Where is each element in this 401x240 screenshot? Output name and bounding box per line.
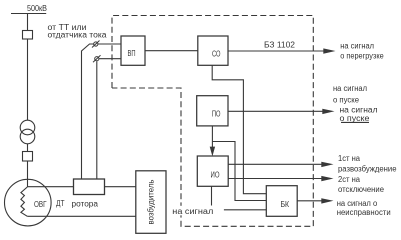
block SO	[198, 36, 228, 65]
wire DT to VP input 2	[97, 59, 121, 179]
svg-text:ОВГ: ОВГ	[34, 200, 47, 209]
transformer T1	[20, 120, 35, 144]
svg-text:1ст на: 1ст на	[338, 154, 361, 163]
svg-text:500кВ: 500кВ	[27, 4, 47, 13]
wire branch PO to BK	[212, 142, 266, 201]
arrow stage2	[321, 176, 333, 181]
wire generator top terminal to DT	[27, 186, 73, 188]
wire switch to generator	[27, 161, 29, 187]
wire IO stage2	[228, 178, 321, 180]
svg-text:ПО: ПО	[212, 109, 221, 119]
svg-text:развозбуждение: развозбуждение	[338, 165, 397, 174]
svg-text:о перегрузке: о перегрузке	[340, 51, 384, 60]
svg-text:на сигнал: на сигнал	[172, 207, 213, 216]
svg-text:2ст на: 2ст на	[338, 175, 361, 184]
wire IO stage1	[228, 163, 321, 165]
label 2st otklyuchenie	[338, 175, 385, 194]
svg-text:на сигнал о: на сигнал о	[337, 199, 378, 208]
arrow overload	[323, 48, 335, 53]
label na signal o peregruzke	[340, 41, 384, 60]
svg-text:БЗ 1102: БЗ 1102	[264, 40, 296, 49]
underline puske	[341, 121, 369, 123]
wire PO down to IO	[211, 126, 213, 148]
svg-text:на сигнал: на сигнал	[333, 84, 367, 93]
block VP	[121, 36, 145, 65]
svg-text:ИО: ИО	[211, 169, 220, 179]
arrow fault	[321, 198, 333, 203]
svg-text:возбудитель: возбудитель	[147, 180, 156, 225]
wire PO to start arrow	[228, 110, 323, 112]
svg-text:отдатчика тока: отдатчика тока	[48, 31, 108, 40]
block BK	[266, 186, 297, 217]
svg-text:отсключение: отсключение	[338, 185, 385, 194]
current sensor DT box	[74, 179, 105, 195]
busbar 500kV	[11, 13, 46, 15]
arrow into IO	[210, 147, 215, 157]
arrow stage1	[321, 162, 333, 167]
svg-text:БК: БК	[281, 199, 290, 209]
svg-text:ВП: ВП	[128, 48, 136, 58]
exciter box	[136, 171, 166, 234]
svg-text:о пуске: о пуске	[333, 96, 360, 105]
svg-text:на сигнал: на сигнал	[340, 41, 374, 50]
svg-text:неисправности: неисправности	[337, 208, 391, 217]
breaker Q1	[23, 31, 33, 40]
label na signal o neispravnosti	[337, 199, 391, 217]
svg-text:о пуске: о пуске	[340, 114, 371, 123]
svg-text:ротора: ротора	[72, 200, 99, 209]
label na signal o puske lower	[340, 105, 378, 123]
breaker Q2	[23, 152, 33, 162]
label na signal o puske upper	[333, 84, 367, 105]
connector X2	[93, 55, 101, 62]
label na signal input	[171, 206, 216, 216]
wire busbar to breaker	[27, 14, 29, 31]
wire transformer to switch	[27, 144, 29, 152]
wire BK to fault arrow	[297, 200, 321, 202]
wire generator bottom terminal to exciter	[27, 215, 136, 217]
block IO	[197, 156, 228, 186]
wire DT to VP input 1	[82, 44, 122, 179]
svg-text:ДТ: ДТ	[56, 199, 65, 208]
wire DT to exciter	[105, 186, 136, 188]
wire SO to overload arrow	[228, 50, 324, 52]
wire IO down	[211, 186, 213, 205]
wire breaker to transformer	[27, 39, 29, 121]
svg-text:СО: СО	[212, 48, 221, 58]
arrow start signal	[322, 109, 334, 114]
block PO	[197, 96, 228, 126]
winding OVG coil	[21, 187, 27, 216]
label 1st razvozbuzhdenie	[338, 154, 397, 174]
connector X1	[92, 41, 100, 48]
dashed cabinet boundary	[112, 16, 313, 227]
wire SO down to BK	[212, 65, 266, 193]
generator G circle	[5, 179, 52, 226]
wire na signal to BK	[224, 209, 266, 211]
wire VP to SO	[145, 50, 198, 52]
